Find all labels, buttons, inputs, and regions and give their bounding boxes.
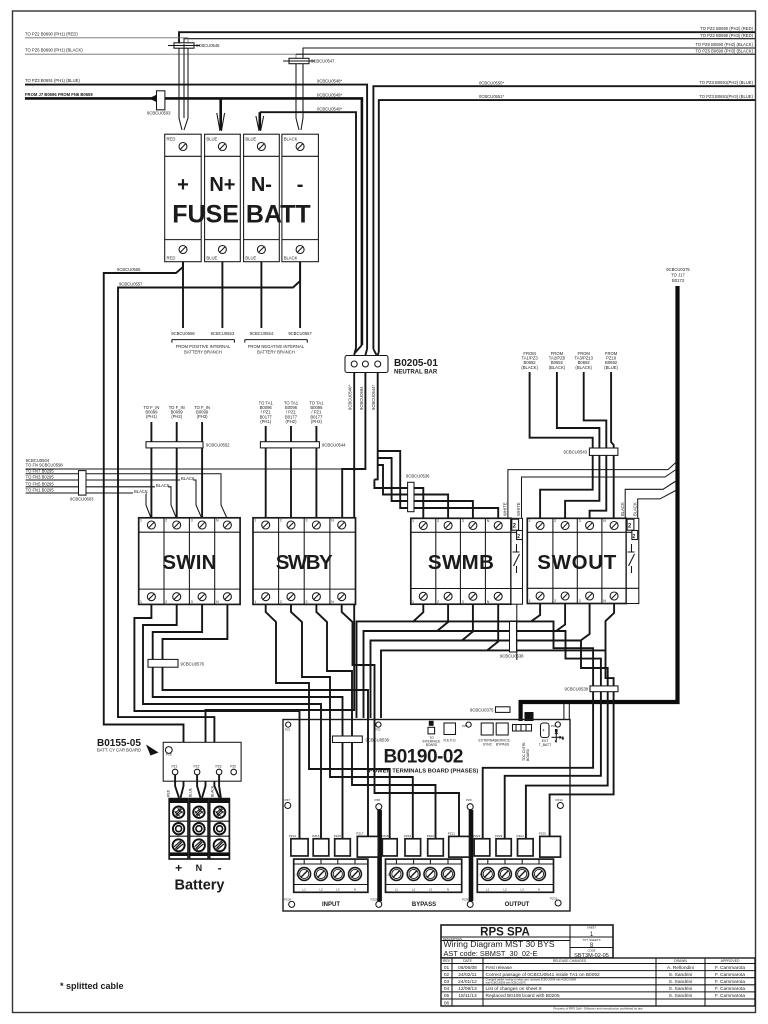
connector 9CBCU0546 — [168, 43, 220, 48]
svg-text:BATT. CY CAR BOARD: BATT. CY CAR BOARD — [97, 748, 141, 753]
svg-text:PZ10: PZ10 — [556, 798, 564, 802]
fuse module N+ (BLUE) — [205, 134, 241, 262]
svg-text:BATTERY BRANCH: BATTERY BRANCH — [257, 349, 295, 354]
wire bypass feed to SWMB col3 — [378, 458, 473, 518]
svg-text:BOARD: BOARD — [426, 743, 438, 747]
wire fuse3 bottom to battery branch — [260, 262, 262, 328]
svg-text:BLACK: BLACK — [134, 489, 148, 494]
svg-text:TO FN1 B0295: TO FN1 B0295 — [26, 488, 55, 493]
wire BLACK 2 merge — [638, 490, 678, 518]
wire stubs cable to board top — [564, 704, 569, 720]
board B0190-02 outline — [283, 720, 570, 912]
svg-text:BOARD: BOARD — [526, 748, 530, 761]
wire bypass feed to SWMB col2 — [378, 465, 448, 518]
svg-text:2: 2 — [437, 600, 439, 604]
svg-text:FROM J7 B0696 FROM FN6 B0659: FROM J7 B0696 FROM FN6 B0659 — [25, 92, 93, 97]
label TO TA1 (PH3) — [309, 401, 324, 424]
switch SWOUT — [527, 518, 639, 603]
label + N - — [175, 861, 222, 875]
wire SWIN L2 to INPUT PZ15 — [143, 604, 321, 839]
svg-text:N: N — [538, 887, 540, 891]
svg-text:TO PZ2 B0690 (PH3) (RED): TO PZ2 B0690 (PH3) (RED) — [700, 33, 753, 38]
svg-text:PZ18: PZ18 — [381, 834, 389, 838]
label FROM TA3/PZ13 B0692 (BLACK) — [574, 351, 593, 370]
svg-text:BLACK: BLACK — [284, 137, 298, 142]
wire TO PZ3 B0691 (PH1) (BLUE) 9CBCU0548* — [25, 85, 367, 349]
svg-text:9CBCU0544*: 9CBCU0544* — [371, 384, 376, 410]
svg-text:BLACK: BLACK — [181, 476, 195, 481]
label BLACK on FN3 wire — [180, 476, 195, 481]
svg-text:N: N — [487, 600, 490, 604]
svg-text:9CBCU0553: 9CBCU0553 — [211, 331, 235, 336]
label FROM PZ18 B0692 (BLUE) — [604, 351, 618, 370]
SWOUT aux contact boxes — [627, 519, 638, 540]
wire 9CBCU0557 to left column — [118, 262, 300, 798]
svg-text:BLUE: BLUE — [245, 256, 256, 261]
switch SWMB — [411, 518, 523, 604]
svg-text:N: N — [216, 600, 219, 604]
svg-text:WHITE: WHITE — [516, 502, 521, 516]
svg-text:3: 3 — [579, 599, 581, 603]
svg-text:12/09/13: 12/09/13 — [458, 986, 477, 992]
svg-text:F. Cammarota: F. Cammarota — [715, 993, 745, 999]
svg-text:1: 1 — [254, 519, 256, 523]
wire funnel pin3 to battery - — [219, 775, 221, 798]
svg-text:Replaced B0109 board with B020: Replaced B0109 board with B0205 — [486, 993, 560, 999]
svg-text:3: 3 — [191, 600, 193, 604]
svg-text:TO FN3 B0295: TO FN3 B0295 — [26, 475, 55, 480]
wire SWBY L1 to BYPASS PZ18 — [266, 604, 390, 839]
svg-text:PZ25: PZ25 — [539, 832, 547, 836]
svg-text:N: N — [331, 600, 334, 604]
bracket FROM POSITIVE INTERNAL BATTERY BRANCH — [172, 340, 235, 355]
svg-text:04: 04 — [444, 986, 450, 992]
svg-text:PZ16: PZ16 — [334, 834, 342, 838]
svg-text:3: 3 — [462, 519, 464, 523]
svg-text:9CBCU0503: 9CBCU0503 — [147, 111, 171, 116]
svg-text:J2: J2 — [387, 873, 391, 877]
wire 9CBCU0556 to left column — [104, 262, 184, 798]
svg-text:0CBCU0550*: 0CBCU0550* — [479, 80, 505, 85]
svg-text:9CBCU0544: 9CBCU0544 — [322, 442, 346, 447]
svg-text:1: 1 — [140, 519, 142, 523]
svg-text:RED: RED — [167, 256, 176, 261]
svg-text:(BLUE): (BLUE) — [604, 365, 618, 370]
svg-text:T_BATT: T_BATT — [539, 743, 551, 747]
svg-text:BATTERY BRANCH: BATTERY BRANCH — [184, 349, 222, 354]
BYPASS terminal strip — [386, 859, 462, 892]
wire SWBY L3 to BYPASS PZ20 — [316, 604, 435, 839]
svg-text:RELEASE CHANGES: RELEASE CHANGES — [553, 959, 587, 963]
svg-text:9CBCU0603: 9CBCU0603 — [70, 497, 94, 502]
connector 9CBCU0503 — [147, 91, 171, 116]
svg-text:(PH3): (PH3) — [311, 419, 323, 424]
svg-text:2: 2 — [165, 600, 167, 604]
wire bypass feed to SWMB col1 — [374, 479, 423, 517]
svg-text:PZ19: PZ19 — [404, 834, 412, 838]
OUTPUT terminal strip — [477, 859, 553, 892]
svg-text:06/06/08: 06/06/08 — [458, 965, 477, 971]
board B0155-05 — [163, 742, 241, 781]
wire FROM PZ18 to SWOUT colN — [611, 372, 614, 518]
svg-text:-: - — [297, 174, 304, 196]
svg-text:PZ0: PZ0 — [230, 765, 236, 769]
wire TA1 PH1 to SWBY — [265, 426, 267, 518]
interface board component — [423, 721, 441, 747]
svg-text:SWBY: SWBY — [276, 551, 333, 574]
svg-text:List of changes on sheet 8: List of changes on sheet 8 — [486, 986, 542, 992]
svg-text:9CBCU0548*: 9CBCU0548* — [317, 79, 343, 84]
wire TO FN1 B0295 — [26, 493, 152, 519]
OUTPUT pads — [473, 832, 560, 858]
INPUT pads — [289, 832, 378, 858]
connector 9CBCU0603 — [70, 471, 94, 502]
svg-text:24/01/12: 24/01/12 — [458, 979, 477, 985]
svg-text:9CBCU0375: 9CBCU0375 — [470, 708, 494, 713]
svg-text:Wiring Diagram MST 30 BYS: Wiring Diagram MST 30 BYS — [444, 939, 555, 949]
svg-text:1: 1 — [529, 599, 531, 603]
svg-text:01: 01 — [444, 965, 450, 971]
svg-text:NEUTRAL BAR: NEUTRAL BAR — [394, 370, 438, 376]
connector 9CBCU0552 — [146, 442, 230, 448]
arrow on FROM J7 wire — [149, 92, 163, 106]
svg-text:BLUE: BLUE — [206, 256, 217, 261]
wire TO PZ2 B0690 (PH2) (RED) — [179, 32, 755, 44]
svg-text:INPUT: INPUT — [322, 902, 340, 908]
TDC control board connector — [513, 725, 532, 762]
svg-text:L3: L3 — [521, 887, 525, 891]
svg-text:9CBCU0375: 9CBCU0375 — [666, 267, 690, 272]
svg-text:B0173: B0173 — [672, 278, 685, 283]
svg-text:POWER TERMINALS BOARD (PHASES): POWER TERMINALS BOARD (PHASES) — [369, 769, 479, 775]
svg-text:PZ24: PZ24 — [517, 834, 525, 838]
label BLACK on FN5 wire — [155, 483, 170, 488]
svg-text:TO J17: TO J17 — [671, 273, 685, 278]
INPUT terminal strip — [294, 859, 368, 892]
svg-text:PZ7: PZ7 — [285, 798, 291, 802]
svg-text:2: 2 — [165, 519, 167, 523]
svg-text:(BLACK): (BLACK) — [549, 365, 566, 370]
svg-text:S. Sandrini: S. Sandrini — [669, 972, 692, 978]
svg-text:TO PZ2 B0690 (PH2) (RED): TO PZ2 B0690 (PH2) (RED) — [700, 26, 753, 31]
wire funnel into fuse module 1 — [179, 48, 188, 130]
wire F_IN PH2 to SWIN — [176, 422, 178, 518]
svg-text:PZ2: PZ2 — [375, 728, 381, 732]
connector 9CBCU0543 — [563, 448, 617, 455]
wire TO FN 9CBCU0598 to SWBY N — [26, 468, 343, 470]
svg-text:3: 3 — [306, 519, 308, 523]
svg-text:TO PZ3 B0691(PH2) (BLUE): TO PZ3 B0691(PH2) (BLUE) — [699, 80, 753, 85]
wire drop into fuse module 2 (N+) — [219, 98, 222, 130]
wire BLACK 1 merge — [625, 480, 677, 518]
label FROM TA2/PZ8 B0692 (BLACK) — [549, 351, 566, 370]
svg-text:9CBCU0552: 9CBCU0552 — [206, 442, 230, 447]
svg-text:1: 1 — [254, 600, 256, 604]
board bottom circles — [284, 898, 295, 908]
connector 9CBCU0536 (vertical, above SWMB) — [406, 473, 430, 511]
BYPASS pads — [381, 832, 469, 858]
svg-text:N+: N+ — [209, 174, 235, 196]
svg-text:BLACK: BLACK — [620, 502, 625, 516]
svg-text:05: 05 — [444, 993, 450, 999]
wire SWIN N to INPUT PZ17 — [163, 604, 369, 839]
svg-text:RPS SPA: RPS SPA — [480, 927, 530, 939]
label FROM TA1/PZ3 B0692 (BLACK) — [521, 351, 538, 370]
svg-text:1: 1 — [529, 519, 531, 523]
wire F_IN PH3 to SWIN — [201, 422, 203, 518]
svg-text:(BLACK): (BLACK) — [521, 365, 538, 370]
fuse module - (BLACK) — [282, 134, 319, 262]
svg-text:2: 2 — [437, 519, 439, 523]
svg-text:9CBCU0543: 9CBCU0543 — [563, 450, 587, 455]
svg-text:Correct passage of 0CBCU0541 i: Correct passage of 0CBCU0541 inside TA1 … — [486, 972, 601, 978]
svg-text:18/11/13: 18/11/13 — [458, 993, 477, 999]
label TO TA1 (PH1) — [259, 401, 274, 424]
svg-text:APPROVED: APPROVED — [721, 959, 740, 963]
svg-text:PZ2: PZ2 — [194, 765, 200, 769]
wire TO PZ3 B0691 (PH3) (BLUE) 0CBCU0551* — [379, 100, 755, 352]
svg-text:PZ30: PZ30 — [462, 898, 470, 902]
revision table — [441, 958, 755, 1011]
wire TO FN3 B0295 — [26, 480, 203, 519]
rail SWMB/SWOUT L2 to OUTPUT PZ23 — [364, 631, 601, 839]
svg-text:WHITE: WHITE — [503, 502, 508, 516]
svg-text:TO PZ3 B0691 (PH1) (BLUE): TO PZ3 B0691 (PH1) (BLUE) — [25, 78, 80, 83]
svg-text:SYNC: SYNC — [483, 742, 493, 746]
svg-text:N: N — [354, 887, 356, 891]
svg-text:PZ14: PZ14 — [289, 834, 297, 838]
arrow to board — [146, 745, 159, 756]
svg-text:B0190-02: B0190-02 — [384, 747, 464, 768]
wire SWOUT N join — [606, 604, 615, 651]
svg-text:06: 06 — [444, 1000, 450, 1006]
svg-text:DATE: DATE — [463, 959, 473, 963]
svg-text:9CBCU0554: 9CBCU0554 — [250, 331, 274, 336]
svg-text:BLUE: BLUE — [206, 137, 217, 142]
switch SWBY — [253, 518, 356, 605]
neutral bar B0205-01 — [345, 356, 388, 373]
svg-text:F. Cammarota: F. Cammarota — [715, 986, 745, 992]
connector 9CBCU0576 — [148, 659, 205, 667]
wire SWBY L2 to BYPASS PZ19 — [291, 604, 413, 839]
EXT T_BATT component — [539, 723, 551, 747]
svg-text:0CBCU0549*: 0CBCU0549* — [317, 106, 343, 111]
svg-text:REV: REV — [443, 959, 451, 963]
title block header — [441, 925, 613, 959]
svg-text:(PH2): (PH2) — [171, 414, 183, 419]
label TO F_IN (PH3) — [194, 405, 210, 419]
svg-text:J3: J3 — [479, 873, 483, 877]
wire SWOUT L3 join — [581, 604, 590, 641]
wire SWOUT L1 join — [531, 604, 540, 622]
svg-text:N: N — [603, 599, 606, 603]
rail SWMB/SWOUT L1 to OUTPUT PZ22 — [357, 621, 594, 839]
svg-text:RED: RED — [167, 789, 171, 797]
svg-text:L2: L2 — [319, 887, 323, 891]
wire SWIN L1 to INPUT PZ14 — [134, 604, 299, 839]
svg-text:9CBCU0546*: 9CBCU0546* — [348, 384, 353, 410]
wire SWMB N join — [487, 604, 498, 650]
svg-text:2: 2 — [554, 519, 556, 523]
wire fuse4 bottom to battery branch — [299, 262, 301, 328]
switch SWIN — [139, 518, 240, 605]
svg-text:0CBCU0551*: 0CBCU0551* — [479, 94, 505, 99]
svg-text:N: N — [555, 729, 557, 733]
connector 9CBCU0538 (horizontal) — [564, 686, 618, 692]
svg-text:PZ6: PZ6 — [551, 724, 557, 728]
wire WHITE 2 merge — [522, 469, 678, 518]
svg-text:BLUE: BLUE — [189, 787, 193, 797]
svg-text:PZ31: PZ31 — [550, 896, 558, 900]
svg-text:9CBCU0576: 9CBCU0576 — [181, 662, 205, 667]
svg-text:-: - — [218, 861, 222, 875]
wire SWBY N to BYPASS PZ21 — [342, 604, 459, 839]
svg-text:2: 2 — [280, 519, 282, 523]
wire fuse2 bottom to battery branch — [221, 262, 223, 328]
svg-text:N-: N- — [251, 174, 272, 196]
svg-text:9CBCU0556: 9CBCU0556 — [171, 331, 195, 336]
svg-text:9CBCU0538: 9CBCU0538 — [500, 654, 524, 659]
svg-text:PZ9: PZ9 — [466, 798, 472, 802]
wire joins into neutral bar — [354, 345, 379, 355]
label BLACK on FN1 wire — [133, 489, 148, 494]
wire SWOUT L2 join — [556, 604, 565, 632]
svg-text:First release: First release — [486, 965, 513, 971]
wire FROM J7 B0696 0CBCU0549* — [25, 98, 362, 345]
svg-text:BLACK: BLACK — [156, 483, 170, 488]
svg-text:3: 3 — [462, 600, 464, 604]
rail SWMB/SWOUT L3 to OUTPUT PZ24 — [371, 641, 608, 840]
svg-text:P26: P26 — [166, 753, 172, 757]
svg-text:PZ20: PZ20 — [427, 834, 435, 838]
svg-text:Property of RPS SpA - Diffusio: Property of RPS SpA - Diffusion and repr… — [554, 1007, 644, 1011]
connector 9CBCU0538 (vertical) — [500, 622, 524, 659]
label TO F_IN (PH2) — [169, 405, 185, 419]
svg-text:(BLACK): (BLACK) — [575, 365, 592, 370]
battery terminal block — [169, 799, 229, 859]
wire TA1 PH3 to SWBY — [315, 426, 317, 518]
svg-text:PZ15: PZ15 — [312, 834, 320, 838]
svg-text:L1: L1 — [395, 887, 399, 891]
SWOUT aux switch symbol — [628, 544, 635, 573]
svg-text:TO PZ6 B0690 (PH3) (BLACK): TO PZ6 B0690 (PH3) (BLACK) — [695, 48, 753, 53]
wire funnel pin2 to battery N — [197, 775, 200, 798]
svg-text:9CBCU0536: 9CBCU0536 — [406, 473, 430, 478]
svg-text:SHEET: SHEET — [587, 926, 597, 930]
wire neutral 1 continues to battery board — [202, 469, 354, 798]
svg-text:N: N — [603, 519, 606, 523]
svg-text:(PH3): (PH3) — [197, 414, 209, 419]
svg-text:A. Rellondini: A. Rellondini — [667, 965, 694, 971]
wire funnel into fuse module 4 — [296, 64, 303, 130]
fuse module N- (BLUE) — [244, 134, 280, 262]
wire SWMB L3 join — [462, 604, 473, 640]
wire TA1 PH2 to SWBY — [290, 426, 292, 518]
svg-text:RED: RED — [167, 137, 176, 142]
svg-text:N: N — [196, 863, 203, 873]
svg-text:9CBCU0557: 9CBCU0557 — [288, 331, 312, 336]
wire TO FN5 B0295 — [26, 487, 177, 519]
svg-text:BYPASS: BYPASS — [496, 742, 510, 746]
svg-text:9CBCU0557: 9CBCU0557 — [119, 282, 143, 287]
svg-text:S. Sandrini: S. Sandrini — [669, 993, 692, 999]
svg-text:PZ17: PZ17 — [356, 832, 364, 836]
svg-text:1: 1 — [412, 600, 414, 604]
connector 9CBCU0544 — [260, 442, 346, 448]
svg-text:2: 2 — [554, 599, 556, 603]
svg-text:AST code: SBMST_30_02-E: AST code: SBMST_30_02-E — [444, 949, 538, 958]
wire TO FN7 B0295 — [26, 474, 228, 519]
svg-text:PZ23: PZ23 — [495, 834, 503, 838]
svg-text:9CBCU0538: 9CBCU0538 — [564, 687, 588, 692]
svg-text:TO PZ2 B0690 (PH1) (RED): TO PZ2 B0690 (PH1) (RED) — [25, 31, 78, 36]
svg-text:PZ28: PZ28 — [371, 898, 379, 902]
cable 9CBCU0375 — [521, 286, 678, 721]
svg-text:R.E.P.O.: R.E.P.O. — [444, 739, 457, 743]
svg-text:1: 1 — [140, 600, 142, 604]
svg-text:0CBCU0549*: 0CBCU0549* — [317, 92, 343, 97]
svg-text:L2: L2 — [503, 887, 507, 891]
board top corner circles — [285, 722, 291, 732]
svg-text:24/02/11: 24/02/11 — [458, 972, 477, 978]
svg-text:TO PZ3 B0691(PH3) (BLUE): TO PZ3 B0691(PH3) (BLUE) — [699, 94, 753, 99]
svg-text:3: 3 — [579, 519, 581, 523]
svg-text:DRAWN: DRAWN — [674, 959, 687, 963]
svg-text:L2: L2 — [412, 887, 416, 891]
svg-text:L3: L3 — [429, 887, 433, 891]
svg-text:+: + — [175, 861, 182, 875]
svg-text:CODE: CODE — [587, 949, 595, 953]
svg-text:9CBCU0594: 9CBCU0594 — [359, 386, 364, 410]
svg-text:(PH1): (PH1) — [260, 419, 272, 424]
svg-text:FUSE BATT: FUSE BATT — [172, 201, 310, 229]
svg-text:PZ22: PZ22 — [473, 834, 481, 838]
wire 0CBCU0549* second — [260, 112, 356, 348]
wire bypass feed to SWMB colN — [378, 451, 499, 518]
wire SWMB L2 join — [437, 604, 448, 631]
svg-text:PZ1: PZ1 — [172, 765, 178, 769]
svg-text:BLACK: BLACK — [211, 785, 215, 797]
svg-text:N: N — [447, 887, 449, 891]
svg-text:F. Cammarota: F. Cammarota — [715, 965, 745, 971]
svg-text:(PH2): (PH2) — [286, 419, 298, 424]
connector 9CBCU0375 (board top) — [470, 707, 510, 713]
connector 9CBCU0547 — [283, 58, 335, 63]
wire neutral bar out 3 — [374, 373, 377, 480]
wire FROM TA2 to SWOUT col2 — [557, 372, 600, 518]
wire funnel pin1 to battery + — [175, 775, 179, 798]
svg-text:L1: L1 — [486, 887, 490, 891]
thick bus bar 2 — [469, 810, 474, 902]
svg-text:2: 2 — [633, 534, 636, 540]
svg-text:L1: L1 — [303, 887, 307, 891]
compass / polarity symbol — [552, 729, 565, 743]
svg-text:BLACK: BLACK — [632, 502, 637, 516]
svg-text:Battery: Battery — [175, 878, 225, 894]
svg-text:B0205-01: B0205-01 — [394, 358, 438, 369]
wire fuse1 bottom to battery branch — [182, 262, 184, 328]
svg-text:9CBCU0556: 9CBCU0556 — [117, 267, 141, 272]
svg-text:4: 4 — [543, 729, 545, 733]
svg-text:TO FN7 B0295: TO FN7 B0295 — [26, 468, 55, 473]
external sync component — [479, 723, 497, 746]
svg-text:9CBCU0546: 9CBCU0546 — [196, 43, 220, 48]
svg-text:TO PZ6 B0690 (PH2) (BLACK): TO PZ6 B0690 (PH2) (BLACK) — [695, 42, 753, 47]
svg-text:N: N — [487, 519, 490, 523]
svg-text:PZ26: PZ26 — [284, 898, 292, 902]
svg-text:SWIN: SWIN — [162, 551, 216, 574]
svg-text:PZ4: PZ4 — [462, 724, 468, 728]
